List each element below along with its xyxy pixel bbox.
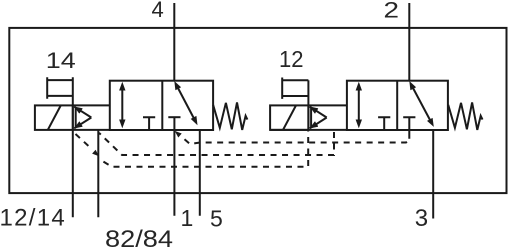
svg-text:12: 12 [279, 46, 304, 72]
svg-text:2: 2 [384, 0, 400, 22]
svg-text:3: 3 [415, 205, 428, 232]
svg-text:82/84: 82/84 [105, 226, 173, 249]
svg-text:5: 5 [210, 205, 223, 231]
svg-text:12/14: 12/14 [0, 204, 66, 231]
svg-text:14: 14 [46, 48, 76, 73]
svg-text:4: 4 [152, 0, 164, 22]
svg-text:1: 1 [181, 205, 194, 231]
